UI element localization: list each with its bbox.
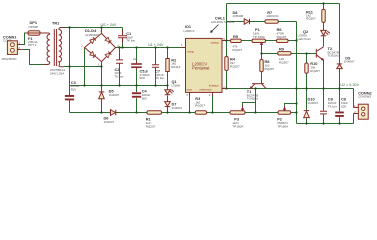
svg-text:TK ker.: TK ker. <box>115 74 125 78</box>
wire T2 base row through R9 <box>262 53 317 55</box>
svg-text:1N4007: 1N4007 <box>109 93 120 97</box>
wire IC pin4 reference drop <box>212 96 214 113</box>
wire Q1 D7 column to bottom rail <box>167 86 169 113</box>
resistor R10 <box>305 63 308 73</box>
IC U1 L200CV body <box>181 37 225 97</box>
transformer TR1 <box>40 28 66 67</box>
wire vertical from top bus down to ground rail <box>69 28 71 86</box>
connector CONN1 <box>7 41 21 55</box>
resistor R1 in bottom rail <box>147 111 162 114</box>
svg-text:RQ207: RQ207 <box>277 35 287 39</box>
svg-text:U2 = 0-30V: U2 = 0-30V <box>340 83 359 87</box>
svg-text:TP160A: TP160A <box>232 125 244 129</box>
svg-text:50V: 50V <box>71 88 77 92</box>
svg-text:CON2W2: CON2W2 <box>358 95 371 99</box>
transistor T1 <box>251 82 267 89</box>
capacitor C5,6 electrolytic pair <box>131 62 142 70</box>
svg-text:R5: R5 <box>233 34 239 39</box>
svg-text:RQ207: RQ207 <box>146 125 156 129</box>
svg-text:1N4007: 1N4007 <box>308 101 319 105</box>
svg-text:2: 2 <box>81 44 83 48</box>
resistor R11 <box>322 9 325 22</box>
heatsink arrow CHL1 <box>211 25 219 33</box>
svg-text:TK ker: TK ker <box>328 105 337 109</box>
capacitor C2 <box>116 54 123 66</box>
wire IC pin3 zem drop <box>189 96 191 113</box>
wire P3 wiper over to T1 <box>243 89 256 113</box>
svg-text:RQ207: RQ207 <box>230 65 240 69</box>
wire CONN1 pin2 to TR1 primary bottom <box>21 50 43 65</box>
svg-text:250V/50Hz: 250V/50Hz <box>2 57 18 61</box>
svg-text:LED 5mm: LED 5mm <box>298 37 312 41</box>
svg-text:TO92(k): TO92(k) <box>328 54 339 58</box>
wire R2 column <box>167 48 169 86</box>
svg-text:vstup: vstup <box>187 50 194 54</box>
svg-text:1N4007: 1N4007 <box>104 120 115 124</box>
diode D8 <box>244 19 250 25</box>
svg-text:R9: R9 <box>279 47 285 52</box>
wire P2 wiper to output vertical <box>285 104 297 105</box>
capacitor C9 electrolytic <box>335 112 344 118</box>
resistor R2 <box>166 59 169 72</box>
trimmer P1 <box>252 39 266 49</box>
wire R8 column to T1 base <box>261 54 263 82</box>
wire bridge left vertex down to ground rail <box>84 48 86 86</box>
svg-text:RQ207: RQ207 <box>279 60 289 64</box>
resistor R4 <box>225 57 228 71</box>
wire C5,6 column <box>136 48 138 86</box>
svg-text:1N4007: 1N4007 <box>172 106 183 110</box>
diode D10 <box>304 111 310 119</box>
svg-text:U1 + 24V: U1 + 24V <box>148 43 164 47</box>
wire top rail <box>227 3 340 5</box>
resistor R6 <box>277 39 289 42</box>
wire D8 R7 row <box>227 21 297 23</box>
connector CONN2 <box>354 104 369 119</box>
diode D7 <box>165 102 171 108</box>
svg-text:CHL200V MODUL: CHL200V MODUL <box>211 20 235 24</box>
wire P1 wiper down <box>261 50 263 54</box>
svg-text:zem: zem <box>187 88 193 92</box>
svg-text:L5008: L5008 <box>172 84 181 88</box>
capacitor C3 electrolytic <box>65 95 74 102</box>
svg-text:50V: 50V <box>142 97 148 101</box>
wire T2 collector emitter column <box>323 37 325 89</box>
wire CONN2 pin1 riser <box>353 89 355 108</box>
wire bottom rail left section with gaps for D6 R1 R3 P3 P2 <box>70 112 297 114</box>
wire D9 C9 column <box>339 4 341 124</box>
fuse F1 in holder DP1 <box>25 31 40 36</box>
wire R10 column <box>306 54 308 89</box>
wire R11 column <box>323 4 325 31</box>
svg-text:RQ207: RQ207 <box>310 69 320 73</box>
diode D6 in bottom rail <box>111 110 119 116</box>
LED Q1 <box>165 90 174 95</box>
wire main DC bus U1 to IC pin1 <box>116 47 182 49</box>
wire limit rail y89 <box>225 88 354 90</box>
svg-text:24V/1,25A: 24V/1,25A <box>50 71 65 75</box>
wire vertical at x226.5 top rail to pin5 row <box>226 4 228 41</box>
svg-text:TP 160A: TP 160A <box>253 35 266 39</box>
wire CONN2 pin2 drop <box>353 114 355 124</box>
svg-text:reference: reference <box>200 88 213 92</box>
svg-text:10R/0.61: 10R/0.61 <box>266 14 279 18</box>
svg-text:RQ207: RQ207 <box>265 67 275 71</box>
svg-text:4: 4 <box>209 93 211 97</box>
svg-text:3: 3 <box>186 93 188 97</box>
wire top AC bus from TR1 secondary top <box>65 27 123 29</box>
svg-text:50V: 50V <box>341 105 347 109</box>
svg-text:PPT 1: PPT 1 <box>28 43 37 47</box>
wire CONN1 pin1 to fuse <box>21 33 28 45</box>
resistor R8 <box>260 60 263 72</box>
wire C7 column <box>155 48 157 86</box>
wire R4 column <box>226 41 228 89</box>
svg-text:R0414: R0414 <box>171 65 180 69</box>
diode D5 <box>99 91 105 100</box>
wire ground rail left section <box>70 85 168 87</box>
svg-text:2x: 2x <box>133 57 137 61</box>
svg-text:RQ207: RQ207 <box>195 104 205 108</box>
svg-text:TR1: TR1 <box>52 21 60 26</box>
svg-text:RQ207: RQ207 <box>232 48 242 52</box>
wire C2 column <box>119 48 121 86</box>
trimmer P3 <box>230 103 245 114</box>
capacitor C1 <box>118 30 127 43</box>
svg-text:RQ207: RQ207 <box>306 17 316 21</box>
wire bridge top vertex to bus <box>101 28 103 34</box>
svg-text:vystup: vystup <box>210 41 219 45</box>
wire C3 column <box>69 86 71 113</box>
svg-text:TK ker.: TK ker. <box>155 76 165 80</box>
diode D9 <box>337 64 343 69</box>
wire C8 column <box>323 89 325 124</box>
svg-text:1N4007: 1N4007 <box>344 59 355 63</box>
svg-text:1: 1 <box>181 43 183 47</box>
svg-text:US + 24V: US + 24V <box>101 23 117 27</box>
svg-text:4x1N5408: 4x1N5408 <box>85 33 99 37</box>
capacitor C7 <box>152 63 159 70</box>
resistor R7 <box>265 20 278 23</box>
wire bottom rail right section <box>297 123 354 125</box>
LED Q2 <box>321 30 330 36</box>
resistor R5 <box>231 39 242 42</box>
svg-text:CON2: CON2 <box>3 38 12 42</box>
transistor T2 <box>316 47 323 61</box>
svg-text:1: 1 <box>98 63 100 67</box>
svg-text:TK ker.: TK ker. <box>126 39 136 43</box>
svg-text:TP160A: TP160A <box>277 125 289 129</box>
wire secondary bottom to bridge <box>64 66 102 68</box>
svg-text:1N5408: 1N5408 <box>233 14 244 18</box>
svg-text:OP02P: OP02P <box>29 25 39 29</box>
svg-text:TO92(k): TO92(k) <box>247 97 258 101</box>
wire C1/C2 column <box>122 28 124 48</box>
wire big vertical x296.7 output net <box>296 22 298 124</box>
capacitor C4 electrolytic <box>132 92 141 98</box>
wire C4 column <box>136 86 138 113</box>
wire output row pin5 through R5 P1 R6 <box>225 40 297 42</box>
trimmer P2 <box>278 105 291 114</box>
wire bridge bottom column through D5 to bottom rail <box>101 62 103 113</box>
capacitor C8 <box>320 111 327 114</box>
resistor R3 in bottom rail <box>195 111 206 114</box>
wire D10 column <box>306 89 308 124</box>
svg-text:Pentawat: Pentawat <box>192 66 210 71</box>
resistor R9 <box>278 52 291 55</box>
bridge rectifier D1-D4 <box>81 29 119 66</box>
svg-text:L200CV: L200CV <box>184 29 196 33</box>
